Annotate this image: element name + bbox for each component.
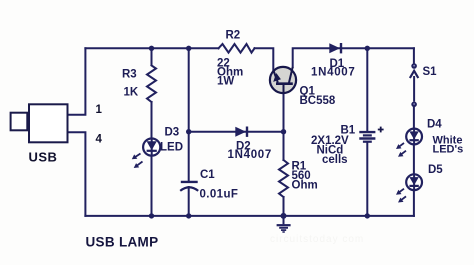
- wire LED D3 to bottom rail: [151, 156, 153, 216]
- wire R2 to Q1 emitter: [255, 48, 274, 71]
- svg-text:cells: cells: [322, 154, 348, 166]
- battery plus sign: [378, 127, 384, 133]
- wire S1 to LED D4: [413, 107, 415, 129]
- svg-text:C1: C1: [200, 169, 215, 181]
- resistor R3: [147, 66, 156, 103]
- junction node bottom rail col B: [186, 213, 191, 218]
- wire top rail left segment: [85, 47, 218, 49]
- svg-text:S1: S1: [423, 66, 438, 78]
- switch S1: [410, 63, 418, 107]
- USB connector body: [29, 104, 68, 142]
- wire battery column top: [366, 48, 368, 131]
- transistor Q1: [270, 67, 296, 94]
- svg-text:D3: D3: [165, 127, 180, 139]
- svg-text:LED: LED: [160, 141, 183, 153]
- junction node D2 row left: [186, 129, 191, 134]
- wire Q1 collector to top rail right: [293, 48, 414, 67]
- wire column R3/D3 top: [151, 48, 153, 65]
- svg-text:R3: R3: [122, 69, 137, 81]
- svg-text:4: 4: [96, 134, 103, 146]
- wire D2 row: [189, 131, 283, 133]
- capacitor C1: [180, 182, 198, 191]
- svg-text:LED's: LED's: [433, 144, 464, 156]
- wire R3 to LED D3: [151, 102, 153, 139]
- wire C1 bottom lead: [188, 187, 190, 216]
- svg-text:BC558: BC558: [300, 95, 336, 107]
- LED D4: [396, 129, 422, 157]
- wire left vertical pin4 to bottom rail: [68, 132, 86, 216]
- battery B1: [359, 132, 375, 142]
- wire D2 row to R1: [283, 132, 285, 160]
- resistor R2: [219, 44, 255, 53]
- svg-text:1K: 1K: [124, 87, 139, 99]
- diode D2: [235, 127, 247, 137]
- svg-text:circuitstoday com: circuitstoday com: [270, 234, 364, 245]
- junction node top of column B: [186, 46, 191, 51]
- junction node bottom rail col A: [149, 213, 154, 218]
- wire C1 top lead: [188, 132, 190, 181]
- LED D3: [132, 139, 160, 169]
- USB plug tip: [11, 113, 28, 131]
- svg-text:1N4007: 1N4007: [228, 149, 272, 161]
- junction node top of battery: [365, 46, 370, 51]
- LED D5: [396, 174, 422, 202]
- wire battery column bottom: [366, 142, 368, 216]
- wire bottom rail: [85, 215, 414, 217]
- svg-text:Ohm: Ohm: [292, 180, 318, 192]
- wire LED D4 to LED D5: [413, 144, 415, 174]
- junction node D2 row right: [281, 129, 286, 134]
- wire left vertical pin1 to top rail: [68, 48, 86, 114]
- wire column B vertical top: [188, 48, 190, 131]
- junction node top of R3: [149, 46, 154, 51]
- svg-text:R2: R2: [226, 30, 241, 42]
- resistor R1: [279, 160, 288, 197]
- junction node bottom rail battery: [365, 213, 370, 218]
- svg-text:1W: 1W: [217, 76, 234, 88]
- wire right column top to S1: [413, 48, 415, 63]
- svg-text:USB LAMP: USB LAMP: [86, 234, 159, 249]
- svg-text:D5: D5: [428, 164, 443, 176]
- svg-text:USB: USB: [29, 149, 58, 164]
- wire LED D5 to bottom rail: [413, 190, 415, 216]
- wire Q1 base to D2 row: [283, 94, 285, 132]
- diode D1: [329, 43, 341, 53]
- wire R1 to bottom rail: [283, 197, 285, 216]
- ground: [277, 216, 291, 232]
- svg-text:1: 1: [96, 104, 103, 116]
- svg-text:1N4007: 1N4007: [311, 67, 355, 79]
- svg-text:D4: D4: [427, 119, 442, 131]
- junction node bottom rail ground: [281, 213, 287, 219]
- svg-text:0.01uF: 0.01uF: [200, 189, 239, 201]
